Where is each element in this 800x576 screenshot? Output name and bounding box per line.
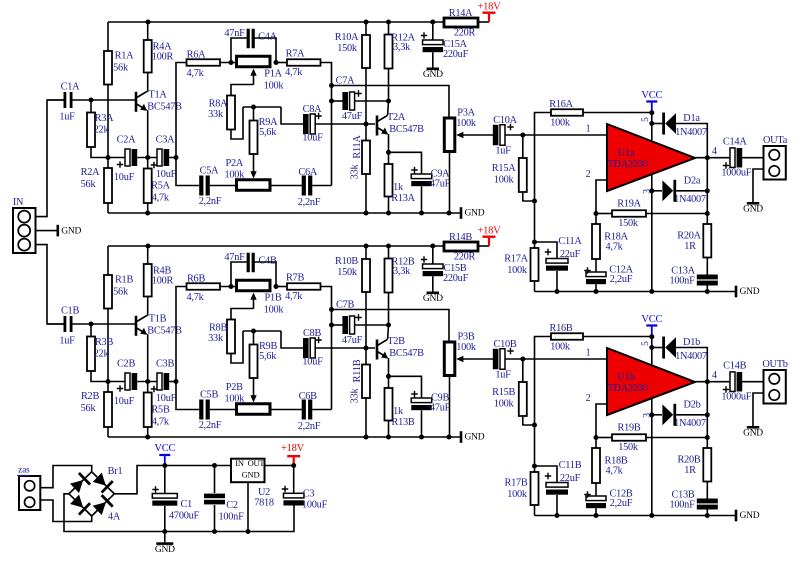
capacitor C12A (586, 272, 606, 277)
wire (176, 287, 187, 382)
svg-text:GND: GND (423, 294, 443, 304)
junction (532, 464, 537, 469)
connector OUTb (764, 370, 786, 404)
svg-text:T1A: T1A (148, 89, 167, 100)
svg-text:C6A: C6A (298, 167, 318, 178)
wire (270, 185, 302, 187)
wire (389, 152, 422, 174)
wire (652, 414, 662, 416)
bridge diode (top-left) (69, 473, 90, 494)
resistor R12B (388, 246, 390, 259)
junction (89, 322, 94, 327)
svg-text:1uF: 1uF (495, 145, 511, 156)
junction (594, 289, 599, 294)
ground (input) (57, 225, 60, 237)
svg-text:1uF: 1uF (59, 111, 75, 122)
wire (421, 411, 423, 438)
junction (145, 211, 150, 216)
wire collector (387, 325, 390, 339)
svg-text:C5B: C5B (200, 389, 219, 400)
capacitor C1 (164, 466, 166, 494)
diode D2b (662, 404, 673, 425)
wire pin3 (651, 399, 653, 516)
svg-text:OUT: OUT (248, 458, 266, 468)
svg-text:C10B: C10B (493, 339, 516, 350)
svg-text:100R: 100R (152, 51, 174, 62)
wire pin5 (651, 113, 653, 141)
wire (137, 381, 158, 383)
wire (595, 259, 597, 272)
transistor T1A (135, 92, 138, 112)
capacitor C13B (697, 499, 718, 504)
junction (386, 150, 391, 155)
svg-text:R19B: R19B (617, 422, 640, 433)
potentiometer P2A (237, 180, 271, 191)
svg-text:100k: 100k (507, 489, 528, 500)
svg-text:R3A: R3A (95, 113, 115, 124)
wire (556, 495, 558, 516)
svg-text:100k: 100k (264, 80, 285, 91)
junction (162, 463, 167, 468)
capacitor C7B (342, 316, 348, 334)
svg-text:C1B: C1B (61, 305, 80, 316)
junction (145, 155, 150, 160)
svg-text:D2a: D2a (684, 175, 701, 186)
junction (649, 289, 654, 294)
svg-text:C4B: C4B (258, 255, 277, 266)
svg-text:4,7k: 4,7k (285, 291, 303, 302)
wire (137, 157, 158, 159)
potentiometer P3B (444, 342, 455, 376)
resistor R14B (444, 242, 478, 251)
svg-text:C14B: C14B (723, 361, 746, 372)
wire (676, 190, 707, 192)
wire (742, 381, 764, 383)
wire pin2 (596, 404, 607, 438)
svg-text:100nF: 100nF (218, 511, 244, 522)
svg-text:R2B: R2B (81, 391, 100, 402)
wire (40, 500, 91, 522)
junction (246, 529, 251, 534)
wire (36, 245, 66, 324)
wire (36, 100, 66, 217)
resistor R18A (595, 214, 597, 225)
svg-text:22uF: 22uF (560, 249, 581, 260)
junction (251, 329, 256, 334)
wire (652, 123, 662, 125)
resistor R13B (388, 376, 390, 388)
svg-text:2: 2 (586, 169, 591, 180)
junction (364, 346, 369, 351)
svg-text:R1A: R1A (115, 50, 135, 61)
svg-text:220R: 220R (454, 251, 476, 262)
junction (649, 345, 654, 350)
capacitor C15A (423, 40, 444, 45)
wiper arrow P1B (253, 298, 255, 309)
bridge rectifier Br1 outline (69, 472, 114, 516)
svg-text:C8B: C8B (303, 328, 322, 339)
connector OUTa (764, 146, 786, 180)
junction (649, 334, 654, 339)
svg-text:C3A: C3A (156, 134, 176, 145)
svg-text:C11A: C11A (558, 236, 582, 247)
wire (332, 324, 344, 326)
svg-text:4,7k: 4,7k (186, 68, 204, 79)
svg-text:R7A: R7A (286, 49, 306, 60)
junction (174, 379, 179, 384)
wire (332, 100, 344, 102)
svg-text:R5B: R5B (151, 404, 170, 415)
svg-text:C8A: C8A (303, 104, 323, 115)
svg-text:C5A: C5A (200, 165, 220, 176)
junction (649, 412, 654, 417)
wire (315, 347, 375, 349)
wire (652, 190, 662, 192)
op-amp U1b (TDA2030) (607, 348, 695, 415)
svg-text:10uF: 10uF (114, 396, 135, 407)
svg-text:T2A: T2A (387, 112, 406, 123)
resistor R6A (187, 59, 221, 66)
resistor R2A (107, 158, 109, 169)
wire (281, 107, 304, 124)
resistor R10A (365, 22, 367, 35)
wire collector (147, 91, 148, 93)
wire (254, 38, 276, 63)
svg-text:R15B: R15B (492, 387, 515, 398)
capacitor C4A (247, 29, 250, 49)
junction (212, 529, 217, 534)
svg-text:10uF: 10uF (156, 169, 177, 180)
wire (676, 124, 707, 158)
svg-text:GND: GND (743, 205, 763, 215)
wire (432, 276, 434, 291)
wiper arrow P2A (250, 171, 256, 178)
svg-text:BC547B: BC547B (389, 348, 424, 359)
svg-text:1R: 1R (684, 465, 696, 476)
resistor R15A (522, 135, 524, 158)
svg-text:1R: 1R (684, 241, 696, 252)
junction (705, 435, 710, 440)
wire (478, 21, 489, 23)
wire top rail A (108, 21, 444, 23)
junction (145, 379, 150, 384)
transistor T2A (376, 116, 379, 136)
svg-text:47nF: 47nF (224, 28, 245, 39)
svg-text:R8A: R8A (209, 98, 229, 109)
VCC power symbol (646, 324, 657, 326)
capacitor C3A (157, 149, 162, 166)
junction (145, 435, 150, 440)
resistor R19A (596, 213, 612, 215)
svg-text:C7A: C7A (336, 75, 356, 86)
junction (594, 435, 599, 440)
svg-text:T1B: T1B (149, 313, 167, 324)
resistor R18B (595, 438, 597, 449)
wire (247, 482, 249, 531)
capacitor C1A (64, 92, 67, 108)
wire (169, 157, 176, 159)
wire (432, 246, 434, 264)
bridge diode (bottom-left) (69, 494, 90, 515)
ground (amp rail A) (735, 286, 738, 298)
wire (114, 466, 231, 494)
junction (447, 211, 452, 216)
svg-text:47uF: 47uF (430, 178, 451, 189)
svg-text:GND: GND (465, 209, 485, 219)
capacitor C10A (493, 125, 499, 146)
resistor R16B (551, 333, 583, 340)
svg-text:R14B: R14B (449, 232, 472, 243)
wiper arrow P3A (461, 134, 494, 136)
junction (594, 211, 599, 216)
junction (89, 98, 94, 103)
svg-text:22uF: 22uF (560, 473, 581, 484)
junction (386, 20, 391, 25)
svg-text:1000uF: 1000uF (721, 168, 751, 179)
wire (108, 157, 125, 159)
wire (231, 38, 247, 63)
svg-text:100k: 100k (456, 118, 477, 129)
wire pin5 (651, 337, 653, 365)
svg-text:100k: 100k (225, 169, 246, 180)
wire (421, 187, 423, 214)
junction (364, 20, 369, 25)
wire base (71, 323, 135, 325)
junction (229, 60, 234, 65)
svg-text:100nF: 100nF (669, 275, 695, 286)
bridge diode (top-right) (92, 471, 113, 492)
svg-text:R19A: R19A (617, 198, 641, 209)
wire base (71, 99, 135, 101)
junction (386, 374, 391, 379)
capacitor C12B (586, 496, 606, 501)
capacitor C10B (493, 349, 499, 370)
capacitor C9B (411, 398, 432, 403)
wire (676, 414, 707, 416)
svg-text:C2B: C2B (117, 358, 136, 369)
junction (649, 188, 654, 193)
svg-text:VCC: VCC (154, 443, 175, 454)
wiper arrow P2B (250, 395, 256, 402)
resistor R1B (107, 246, 109, 275)
wire (753, 393, 764, 426)
svg-text:1N4007: 1N4007 (675, 351, 707, 362)
junction (555, 289, 560, 294)
wire (176, 382, 199, 410)
wire amp rail (535, 515, 737, 517)
wiper arrow P3B (461, 358, 494, 360)
wiper arrow P1A (253, 74, 255, 85)
svg-text:100uF: 100uF (302, 499, 328, 510)
svg-text:IN: IN (235, 458, 244, 468)
svg-text:IN: IN (13, 197, 24, 208)
wire (321, 63, 332, 186)
svg-text:OUTa: OUTa (763, 135, 788, 146)
capacitor C6A (302, 176, 306, 196)
junction (386, 323, 391, 328)
resistor R19B (596, 437, 612, 439)
resistor R17B (531, 472, 539, 505)
junction (212, 463, 217, 468)
wire (220, 62, 237, 64)
svg-text:4,7k: 4,7k (285, 67, 303, 78)
svg-text:D1a: D1a (683, 113, 700, 124)
capacitor C4B (247, 253, 250, 273)
svg-text:VCC: VCC (641, 314, 662, 325)
junction (274, 284, 279, 289)
connector IN (13, 208, 36, 253)
svg-text:R6B: R6B (187, 273, 206, 284)
svg-text:5: 5 (641, 341, 651, 346)
junction (386, 99, 391, 104)
svg-text:R9B: R9B (259, 341, 278, 352)
junction (229, 284, 234, 289)
ground (preamp rail B) (460, 431, 463, 443)
wire (210, 409, 237, 411)
svg-text:1N4007: 1N4007 (674, 194, 706, 205)
resistor R2B (107, 382, 109, 393)
svg-text:GND: GND (242, 469, 260, 479)
wire (652, 347, 662, 349)
svg-text:GND: GND (61, 226, 81, 236)
wire (535, 242, 558, 259)
junction (705, 412, 710, 417)
wire (47, 323, 65, 325)
svg-text:C4A: C4A (258, 31, 278, 42)
svg-text:47uF: 47uF (430, 402, 451, 413)
wire (354, 324, 388, 326)
svg-text:1k: 1k (393, 182, 404, 193)
svg-text:R16A: R16A (549, 99, 573, 110)
junction (649, 121, 654, 126)
wire (676, 348, 707, 382)
svg-text:5,6k: 5,6k (259, 351, 277, 362)
resistor R14A (444, 18, 478, 27)
svg-text:4,7k: 4,7k (152, 416, 170, 427)
resistor R9B (253, 331, 255, 345)
svg-text:220uF: 220uF (443, 273, 469, 284)
junction (274, 60, 279, 65)
svg-text:100R: 100R (152, 275, 174, 286)
potentiometer P1B (237, 280, 271, 291)
diode D1b (662, 337, 665, 359)
diode D2a (662, 180, 673, 201)
resistor R13A (388, 152, 390, 164)
svg-text:2,2uF: 2,2uF (610, 498, 633, 509)
wire (706, 510, 708, 516)
svg-text:+18V: +18V (477, 225, 501, 236)
resistor R7B (276, 286, 287, 288)
resistor R11A (365, 124, 367, 141)
VCC power symbol (646, 100, 657, 102)
svg-text:100k: 100k (494, 174, 515, 185)
junction (291, 463, 296, 468)
svg-text:P2B: P2B (226, 382, 243, 393)
svg-text:56k: 56k (81, 179, 97, 190)
wire (583, 336, 652, 338)
junction (532, 423, 537, 428)
ground (below C15A) (427, 68, 440, 71)
ground (amp rail B) (735, 510, 738, 522)
junction (364, 122, 369, 127)
svg-text:R20A: R20A (677, 230, 701, 241)
diode D1a (662, 113, 665, 135)
svg-text:10uF: 10uF (156, 393, 177, 404)
svg-text:100k: 100k (494, 398, 515, 409)
wire (64, 494, 294, 532)
wire pin1 (505, 134, 607, 136)
svg-text:P3A: P3A (457, 107, 475, 118)
svg-text:GND: GND (155, 545, 175, 555)
wire (312, 185, 331, 187)
svg-text:R17A: R17A (504, 253, 528, 264)
svg-text:4: 4 (712, 146, 717, 157)
potentiometer P2B (237, 404, 271, 415)
svg-text:100k: 100k (456, 342, 477, 353)
wire (176, 158, 199, 186)
wire pin2 (596, 180, 607, 214)
resistor R8A (231, 85, 254, 96)
svg-text:C11B: C11B (559, 460, 582, 471)
svg-text:56k: 56k (113, 62, 129, 73)
resistor R11B (365, 348, 367, 365)
VCC power symbol (PSU) (159, 454, 170, 456)
svg-text:C6B: C6B (299, 391, 318, 402)
wire (281, 331, 304, 348)
wire (706, 286, 708, 292)
capacitor C2A (125, 149, 130, 166)
capacitor C2B (125, 373, 130, 390)
svg-text:R10A: R10A (335, 32, 359, 43)
wire (270, 409, 302, 411)
resistor R17A (531, 248, 539, 281)
svg-text:2,2nF: 2,2nF (298, 421, 321, 432)
svg-text:100k: 100k (550, 341, 571, 352)
svg-text:GND: GND (740, 511, 760, 521)
junction (106, 155, 111, 160)
ground (preamp rail A) (460, 207, 463, 219)
+18V power symbol (A rail) (483, 12, 496, 14)
transistor T2B (376, 340, 379, 360)
svg-text:2,2nF: 2,2nF (298, 197, 321, 208)
wire (264, 465, 294, 467)
junction (146, 244, 151, 249)
svg-text:D2b: D2b (684, 399, 701, 410)
wire (432, 22, 434, 40)
capacitor C8A (303, 114, 309, 134)
svg-text:R5A: R5A (151, 180, 171, 191)
junction (251, 105, 256, 110)
resistor R8B (231, 309, 254, 320)
svg-text:P3B: P3B (458, 331, 475, 342)
svg-text:5,6k: 5,6k (259, 127, 277, 138)
wire (583, 112, 652, 114)
svg-text:P1A: P1A (264, 69, 282, 80)
svg-text:33k: 33k (208, 333, 224, 344)
resistor R5A (147, 158, 149, 169)
junction (594, 513, 599, 518)
junction (705, 211, 710, 216)
svg-text:3,3k: 3,3k (393, 266, 411, 277)
wire (742, 157, 764, 159)
wire (449, 152, 451, 214)
svg-text:1uF: 1uF (495, 369, 511, 380)
junction (386, 244, 391, 249)
svg-text:1: 1 (586, 347, 591, 358)
wire emitter (388, 134, 390, 152)
svg-text:2: 2 (586, 393, 591, 404)
junction (705, 289, 710, 294)
